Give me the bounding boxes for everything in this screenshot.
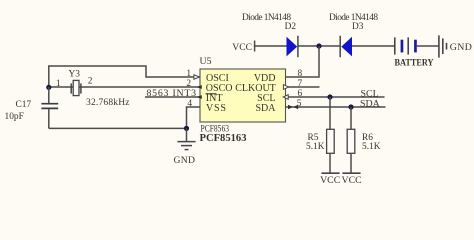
crystal Y3 (71, 80, 81, 95)
ground symbol (bottom) (174, 128, 196, 166)
svg-text:SDA: SDA (255, 103, 276, 114)
pin 3 marker (arrow) (196, 95, 202, 99)
junction node SDA/R6 (348, 104, 353, 109)
power port VCC (top) (232, 41, 254, 54)
svg-text:BATTERY: BATTERY (395, 58, 434, 68)
diode D2 (287, 36, 298, 57)
pin 5 marker (bidirectional arrows) (288, 105, 298, 110)
wire crystal to pin 2 OSCO (49, 86, 200, 88)
wire R5 to VCC bar (329, 153, 331, 173)
power port VCC (below R5) (320, 173, 340, 186)
wire net 8563_INT to pin 3 (145, 96, 200, 98)
pin 7 marker (output arrow) (283, 85, 288, 90)
svg-text:1: 1 (56, 79, 61, 89)
svg-text:D3: D3 (352, 22, 364, 32)
svg-text:Y3: Y3 (69, 70, 81, 80)
op IC U1 body PCF8563 (200, 69, 286, 122)
svg-text:PCF8563: PCF8563 (201, 124, 230, 134)
wire pin 7 CLKOUT stub (286, 86, 320, 88)
wire top loop: node to pin 1 OSCI (49, 66, 200, 87)
power port VCC (below R6) (342, 173, 362, 186)
ground symbol (right, sideways) (439, 35, 472, 57)
svg-text:VCC: VCC (320, 175, 340, 186)
wire junction down to pin 8 (286, 46, 320, 77)
battery BT (BATTERY) (395, 37, 434, 67)
svg-text:1: 1 (186, 69, 191, 79)
diode D3 (340, 36, 352, 57)
wire bottom: C17 to ground junction (49, 127, 187, 129)
svg-text:5.1K: 5.1K (362, 142, 381, 152)
wire pin 5 SDA net (286, 106, 386, 108)
wire D2 cathode to D3 cathode (298, 45, 340, 47)
junction node crystal/C17 (46, 85, 51, 90)
svg-text:32.768kHz: 32.768kHz (86, 98, 130, 108)
pin label INT with overline (206, 93, 223, 104)
svg-text:10pF: 10pF (5, 112, 24, 122)
svg-text:GND: GND (450, 42, 472, 53)
wire D3 anode to battery (352, 45, 395, 47)
svg-text:PCF85163: PCF85163 (200, 133, 247, 144)
junction node SCL/R5 (327, 94, 332, 99)
svg-text:D2: D2 (285, 22, 297, 32)
capacitor C17 (41, 87, 58, 128)
resistor R5 (327, 129, 335, 153)
svg-text:GND: GND (174, 155, 196, 166)
svg-text:5.1K: 5.1K (306, 142, 325, 152)
wire R6 to VCC bar (350, 153, 352, 173)
svg-text:VCC: VCC (342, 175, 362, 186)
svg-text:VCC: VCC (232, 42, 252, 53)
wire pin 6 SCL net (286, 96, 385, 98)
wire pin 4 VSS to ground junction (187, 107, 201, 128)
wire VCC to D2 anode (255, 45, 287, 47)
wire SDA junction to R6 (350, 107, 352, 130)
wire battery to right ground (417, 45, 439, 47)
svg-text:U5: U5 (200, 56, 212, 67)
svg-text:C17: C17 (16, 100, 32, 110)
junction node ground (184, 126, 189, 131)
wire SCL junction to R5 (329, 97, 331, 130)
svg-text:2: 2 (186, 79, 191, 89)
svg-text:SDA: SDA (360, 98, 381, 109)
junction node VDD rail (316, 43, 321, 48)
svg-text:8: 8 (298, 69, 303, 79)
pin 2 marker (arrow) (196, 85, 202, 89)
pin 6 marker (arrow) (283, 95, 288, 100)
resistor R6 (347, 129, 355, 153)
svg-text:VSS: VSS (206, 103, 227, 114)
pin 1 marker (input arrow) (194, 75, 200, 79)
svg-text:2: 2 (88, 77, 93, 87)
svg-text:4: 4 (187, 99, 192, 109)
